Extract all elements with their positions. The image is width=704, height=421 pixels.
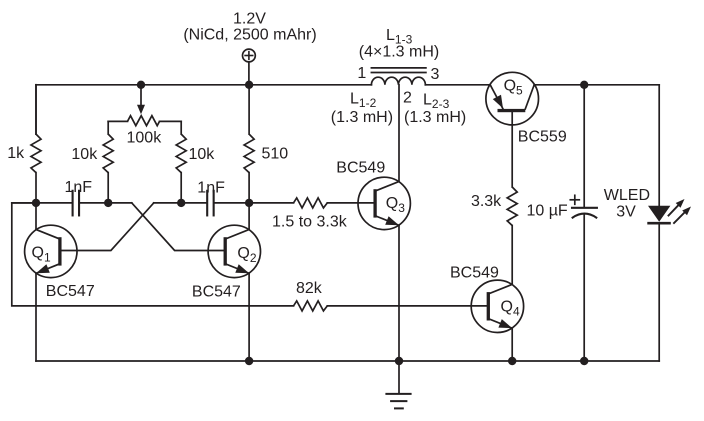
resistor 10k left: [103, 121, 113, 202]
svg-text:(1.3 mH): (1.3 mH): [331, 109, 393, 126]
label (1.3 mH) right: [404, 109, 466, 126]
svg-text:BC559: BC559: [518, 129, 567, 146]
wire node row stub left of 10k-right node: [154, 202, 182, 204]
wire 10uF bottom lead to ground rail: [583, 214, 585, 361]
label 1nF right: [197, 180, 225, 197]
transistor Q4 BC549: [471, 280, 523, 332]
svg-text:510: 510: [262, 146, 289, 163]
node row2 / 510-Q2: [245, 199, 253, 207]
label BC549 lower: [450, 265, 499, 282]
label L2-3: [423, 92, 450, 112]
wire node row stub right of 10k-left node: [108, 202, 132, 204]
label 1nF left: [65, 179, 93, 196]
node bottom / Q2 emitter: [245, 357, 253, 365]
wire WLED anode lead: [658, 85, 660, 206]
wire far-left feedback loop (node row to 82k row): [12, 203, 294, 306]
transistor Q2 BC547 (right NPN): [208, 225, 260, 277]
wire Q4 emitter down to bottom rail: [511, 328, 513, 361]
label 10k left: [71, 146, 98, 163]
wire Q2 emitter down to bottom rail: [248, 273, 250, 361]
capacitor C1 1nF plates: [73, 191, 79, 216]
svg-text:1k: 1k: [7, 145, 25, 162]
svg-text:BC547: BC547: [46, 283, 95, 300]
label WLED: [604, 187, 650, 204]
label 3V: [616, 204, 636, 221]
label Q2: [237, 245, 256, 265]
wire Q3 emitter down to bottom rail: [398, 225, 400, 361]
resistor 1.5-3.3k: [294, 198, 328, 208]
svg-text:1nF: 1nF: [65, 179, 93, 196]
wire 3.3k to Q4 collector: [511, 226, 513, 285]
svg-text:(1.3 mH): (1.3 mH): [404, 109, 466, 126]
svg-text:3: 3: [431, 66, 440, 83]
capacitor C3 10uF polarized: [572, 208, 597, 218]
svg-text:BC549: BC549: [450, 265, 499, 282]
svg-text:10k: 10k: [189, 146, 216, 163]
wire 1k bottom lead to node row: [35, 173, 37, 203]
wire WLED cathode lead to bottom rail: [658, 224, 660, 361]
wire inductor tap 2 down to Q3 collector: [398, 85, 400, 182]
ground symbol: [386, 361, 410, 408]
label 1.5 to 3.3k: [272, 214, 348, 231]
wire node row segment C1 right to 10k-left node: [80, 202, 108, 204]
transistor Q1 BC547 (left NPN, mirrored): [25, 225, 77, 277]
svg-text:1.2V: 1.2V: [233, 11, 266, 28]
capacitor 10uF plus sign: [570, 195, 579, 204]
node bottom / Q4 emitter: [508, 357, 516, 365]
label Q5: [504, 77, 523, 97]
wire Q2 base lead and cross-coupling diagonal up to left 10k node: [132, 203, 224, 251]
svg-text:82k: 82k: [296, 280, 323, 297]
inductor pin label 1: [357, 65, 366, 82]
svg-text:3.3k: 3.3k: [471, 193, 502, 210]
wire Q5 base down to 3.3k: [511, 112, 513, 187]
label BC549 upper: [336, 160, 385, 177]
label 1k: [7, 145, 25, 162]
node bottom / ground: [395, 357, 403, 365]
wire Q1 base lead and cross-coupling diagonal up to right 10k node: [61, 203, 153, 251]
resistor 1k: [31, 85, 41, 173]
label 82k: [296, 280, 323, 297]
label (4x1.3 mH): [359, 44, 439, 61]
inductor core lines: [371, 68, 426, 73]
capacitor C2 1nF plates: [207, 191, 213, 216]
label 100k: [127, 129, 163, 146]
wire top rail right segment (inductor pin 3 to Q5 emitter): [425, 84, 490, 86]
svg-text:WLED: WLED: [604, 187, 650, 204]
label (1.3 mH) left: [331, 109, 393, 126]
node row2 / 10k left: [104, 199, 112, 207]
node top rail / pot wiper: [137, 81, 145, 89]
inductor L1-3 winding (4 humps): [371, 77, 425, 85]
label Q3: [386, 195, 405, 215]
wire Q1 emitter down to bottom rail: [35, 273, 37, 361]
label L1-3: [386, 27, 413, 47]
label 10 uF: [526, 203, 567, 220]
wire node row segment C2 right to Q2 collector node: [215, 202, 249, 204]
transistor Q5 BC559 (PNP): [486, 72, 539, 125]
inductor pin label 3: [431, 66, 440, 83]
label 3.3k: [471, 193, 502, 210]
label Q4: [501, 299, 520, 319]
svg-text:(NiCd, 2500 mAhr): (NiCd, 2500 mAhr): [183, 27, 316, 44]
svg-text:10k: 10k: [71, 146, 98, 163]
wire R 1.5-3.3k to Q3 base: [327, 202, 373, 204]
label 1.2V: [233, 11, 266, 28]
transistor Q3 BC549: [358, 177, 410, 229]
wire top rail output segment (Q5 collector to WLED anode corner): [534, 84, 659, 86]
wire left rail vertical (top-left corner down to 1k): [35, 85, 37, 134]
node row2 / 1k-Q1: [32, 199, 40, 207]
wire node row segment to C2 left plate: [181, 202, 206, 204]
potentiometer R 100k body: [108, 116, 181, 126]
node bottom / 10uF: [580, 357, 588, 365]
svg-text:100k: 100k: [127, 129, 163, 146]
svg-text:1nF: 1nF: [197, 180, 225, 197]
label 10k right: [189, 146, 216, 163]
svg-text:10 µF: 10 µF: [526, 203, 567, 220]
LED D1 WLED triangle: [648, 206, 670, 222]
label BC559: [518, 129, 567, 146]
node top rail / battery: [245, 81, 253, 89]
resistor 3.3k: [507, 187, 517, 226]
battery B1 1.2V NiCd terminal symbol: [243, 49, 256, 85]
LED light arrow upper: [669, 199, 685, 216]
wire Q2 collector node to R 1.5-3.3k: [249, 202, 293, 204]
svg-text:1.5 to 3.3k: 1.5 to 3.3k: [272, 214, 348, 231]
wire Q1 collector up to node row: [35, 203, 37, 230]
node row2 / 10k right: [177, 199, 185, 207]
wire 10uF top lead from output rail: [583, 85, 585, 207]
wire top rail left segment (battery rail from top-left corner to inductor pin 1): [36, 84, 371, 86]
svg-text:BC549: BC549: [336, 160, 385, 177]
wire Q2 collector up to node row: [248, 203, 250, 230]
wire bottom ground rail: [36, 360, 659, 362]
label Q1: [32, 245, 51, 265]
node top rail / 10uF: [580, 81, 588, 89]
LED light arrow lower: [674, 207, 691, 224]
svg-text:3V: 3V: [616, 204, 636, 221]
svg-text:BC547: BC547: [192, 284, 241, 301]
svg-text:2: 2: [403, 90, 412, 107]
label 510: [262, 146, 289, 163]
wire node row segment C1 left: [12, 202, 72, 204]
LED D1 cathode bar: [649, 222, 670, 225]
label BC547 right: [192, 284, 241, 301]
svg-text:(4×1.3 mH): (4×1.3 mH): [359, 44, 439, 61]
label L1-2: [350, 91, 377, 111]
label (NiCd, 2500 mAhr): [183, 27, 316, 44]
potentiometer 100k wiper arrow: [137, 85, 145, 115]
label BC547 left: [46, 283, 95, 300]
inductor pin label 2: [403, 90, 412, 107]
resistor 510: [244, 85, 254, 203]
svg-text:1: 1: [357, 65, 366, 82]
wire 82k row right segment (82k to Q4 base): [327, 305, 486, 307]
resistor 10k right: [176, 121, 186, 202]
resistor 82k: [294, 301, 328, 311]
